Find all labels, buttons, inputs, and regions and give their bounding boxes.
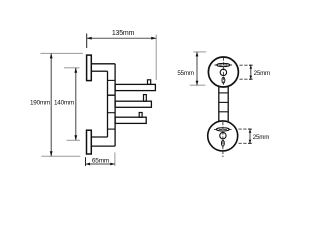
dimension 25mm top: arrow top [250, 65, 253, 69]
top bracket arm (plate to post) [92, 64, 115, 71]
dimension 25mm top: leader bottom [240, 78, 252, 80]
dimension 25mm top: dimension line [250, 65, 252, 79]
post ring divider 1 [108, 79, 116, 81]
dimension 25mm bottom: arrow bottom [249, 140, 252, 144]
post bar divider 1 [219, 92, 228, 94]
dimension 65mm: extension line right [114, 152, 116, 166]
dimension 140mm: arrow top [74, 68, 77, 73]
dimension 25mm bottom: leader bottom [239, 142, 251, 144]
dimension 25mm top: leader top [240, 64, 252, 66]
bottom plate: vertical centerline [222, 122, 224, 157]
dimension 140mm: dimension line [75, 68, 77, 141]
dimension 135mm: dimension line [87, 37, 157, 39]
dimension 65mm: dimension line [86, 163, 115, 165]
dimension 65mm: arrow left [86, 163, 91, 166]
dimension 65mm: arrow right [110, 163, 115, 166]
bottom plate: screw hole [220, 132, 226, 138]
hook arm 2 [115, 101, 151, 107]
top plate: screw hole [220, 69, 226, 75]
round wall plate top [208, 57, 238, 87]
swivel post [108, 64, 116, 146]
hook peg 1 [148, 80, 151, 85]
post ring divider 4 [108, 128, 116, 130]
dimension 140mm: extension line bottom [67, 139, 81, 141]
post ring divider 2 [108, 94, 116, 96]
dimension 55mm: arrow top [196, 52, 199, 57]
round wall plate bottom [208, 121, 238, 151]
svg-text:140mm: 140mm [54, 100, 74, 107]
dimension 55mm: extension line top [193, 51, 206, 53]
dimension 55mm: extension line bottom [190, 84, 206, 86]
dimension 25mm bottom: leader top [239, 128, 251, 130]
dimension 25mm top: end caps [249, 64, 253, 66]
hook arm 3 [115, 117, 146, 123]
dimension 135mm: arrow right [151, 37, 156, 40]
svg-text:190mm: 190mm [30, 100, 50, 107]
bottom bracket arm (post to plate) [91, 137, 115, 146]
hook peg 2 [144, 95, 147, 102]
hook peg 3 [139, 113, 142, 118]
wall plate top (side view) [87, 55, 92, 81]
wall plate bottom (side view) [87, 130, 92, 154]
dimension 140mm: arrow bottom [74, 135, 77, 140]
dimension 55mm: arrow bottom [196, 81, 199, 86]
dimension 190mm: arrow top [50, 53, 53, 58]
dimension 140mm: extension line top [64, 67, 80, 69]
top plate: horizontal slot centerline [215, 64, 234, 66]
dimension 190mm: arrow bottom [50, 151, 53, 156]
post ring divider 3 [108, 112, 116, 114]
connecting post bar [219, 87, 228, 121]
dimension 55mm: dimension line [196, 52, 198, 85]
dimension 190mm: extension line bottom [42, 155, 81, 157]
bottom plate: horizontal slot [216, 128, 229, 131]
hook arm 1 [115, 84, 155, 90]
top plate: vertical slot [222, 77, 225, 83]
svg-text:25mm: 25mm [253, 134, 269, 141]
dimension 25mm bottom: arrow top [249, 129, 252, 133]
top plate: vertical centerline [222, 58, 224, 87]
dimension 25mm bottom: dimension line [249, 129, 251, 143]
bottom plate: horizontal slot centerline [214, 128, 233, 130]
dimension 135mm: extension line right [155, 35, 157, 81]
dimension 135mm: extension line left [86, 34, 88, 49]
post bar divider 3 [219, 111, 228, 113]
svg-text:65mm: 65mm [92, 157, 109, 164]
dimension 25mm bottom: end caps [248, 128, 252, 130]
top plate: horizontal slot [217, 63, 230, 66]
dimension 190mm: dimension line [50, 53, 52, 156]
dimension 65mm: extension line left [85, 157, 87, 166]
svg-text:55mm: 55mm [177, 70, 193, 77]
dimension 25mm top: arrow bottom [250, 76, 253, 80]
dimension 190mm: extension line top [40, 52, 82, 54]
svg-text:25mm: 25mm [254, 70, 270, 77]
dimension 135mm: arrow left [87, 37, 92, 40]
svg-text:135mm: 135mm [112, 30, 135, 37]
bottom plate: vertical slot [222, 140, 225, 146]
post bar divider 2 [219, 101, 228, 103]
